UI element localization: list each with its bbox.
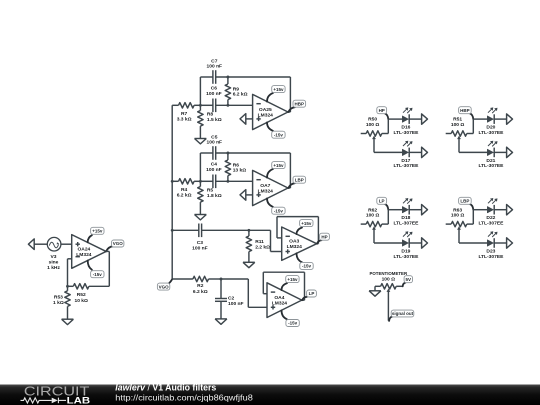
wire (OA3 feedback loop) [277,217,318,244]
svg-text:V3: V3 [51,254,57,260]
footer bar [0,385,540,405]
svg-text:POTENTIOMETER: POTENTIOMETER [370,271,408,277]
ground (right-pointing) [422,114,428,124]
node B [226,104,229,107]
op-amp OA24 LM324 [72,235,106,269]
resistor R4 6.2 k&#937; [172,179,200,199]
svg-text:LTL-307EE: LTL-307EE [478,221,504,227]
wire [473,118,487,120]
svg-text:HBP: HBP [460,108,470,113]
wire (to OA4 non-inverting input) [221,279,267,307]
svg-text:-15v: -15v [288,321,298,326]
svg-text:OA25: OA25 [259,107,272,113]
ground (below R11) [243,262,255,267]
LED D16 LTL-307EE [393,107,419,135]
wiper (R62) [372,226,376,243]
wiper (R51) [457,136,461,153]
svg-text:lawlerv / V1 Audio filters: lawlerv / V1 Audio filters [115,383,216,393]
svg-text:LP: LP [379,199,385,204]
node A [199,180,202,183]
flag +15v (OA3) [297,220,314,235]
flag LBP (indicator input) [459,197,474,209]
node (top rail / R6) [226,152,229,155]
potentiometer R51 100 &#937; [446,117,474,137]
svg-text:R2: R2 [197,283,204,289]
svg-text:100 Ω: 100 Ω [451,213,465,219]
flag -15v (OA25) [267,122,285,138]
LED D21 LTL-307EE [478,141,504,170]
svg-text:-15v: -15v [274,208,284,213]
svg-text:HP: HP [321,234,327,239]
svg-text:-15v: -15v [274,132,284,137]
svg-text:R11: R11 [255,239,264,245]
flag -15v (OA3) [297,253,314,269]
svg-text:2.2 kΩ: 2.2 kΩ [255,245,270,251]
svg-text:D18: D18 [401,215,410,221]
svg-text:OA3: OA3 [289,239,299,245]
capacitor C4 100 nF [206,162,222,189]
svg-text:R5: R5 [207,187,214,193]
svg-text:1.8 kΩ: 1.8 kΩ [207,193,222,199]
svg-text:OA4: OA4 [274,295,284,301]
LED D19 LTL-307EE [393,231,419,259]
CircuitLab logo [21,385,91,405]
LED D17 LTL-307EE [393,141,419,170]
svg-text:R53: R53 [54,295,63,301]
svg-text:10 kΩ: 10 kΩ [74,298,88,304]
flag +15v (OA24) [88,227,104,242]
flag VGO (OA24 output) [106,240,124,251]
svg-text:LM324: LM324 [258,188,274,194]
svg-text:C6: C6 [211,86,218,92]
ground (right-pointing) [507,205,513,215]
op-amp OA3 LM324 [282,227,317,260]
flag 5V [403,276,413,287]
ground (at non-inverting input) [240,114,253,125]
svg-text:VGO: VGO [113,241,124,246]
resistor R7 3.3 k&#937; [172,103,200,123]
wire (OA24 output to feedback) [89,251,109,286]
svg-text:100 nF: 100 nF [228,301,244,307]
svg-text:100 Ω: 100 Ω [382,276,396,282]
potentiometer R62 100 &#937; [361,207,389,227]
svg-text:sine: sine [49,259,59,265]
footer title text [115,383,253,403]
svg-text:R8: R8 [207,111,214,117]
svg-text:1.5 kΩ: 1.5 kΩ [207,117,222,123]
svg-text:R4: R4 [181,187,188,193]
svg-text:D23: D23 [486,248,495,254]
node (bus / stage-2) [171,180,174,183]
svg-text:C3: C3 [197,240,204,246]
svg-text:R7: R7 [181,111,188,117]
svg-text:D20: D20 [486,125,495,131]
svg-text:6.2 kΩ: 6.2 kΩ [233,92,248,98]
svg-text:100 nF: 100 nF [192,245,208,251]
wire [409,242,421,244]
wire [494,209,506,211]
svg-text:LM324: LM324 [287,244,303,250]
wire [61,243,72,245]
wire (feedback) [288,77,290,112]
svg-text:D17: D17 [401,158,410,164]
potentiometer POTENTIOMETER 100 &#937; [370,271,408,289]
wire (node A up to top rail) [199,77,201,105]
wire (mid rail) [200,180,252,182]
wire [473,209,487,211]
svg-text:100 nF: 100 nF [206,91,222,97]
node (C3 / R11) [247,229,250,232]
ground (right-pointing) [422,147,428,157]
svg-text:LTL-307EE: LTL-307EE [478,163,504,169]
svg-text:100 Ω: 100 Ω [366,122,380,128]
wire [68,285,74,287]
svg-text:LM324: LM324 [76,252,92,258]
wire [172,229,199,231]
LED D18 LTL-307EE [393,198,419,227]
svg-text:LBP: LBP [460,199,469,204]
svg-text:D19: D19 [401,248,410,254]
resistor R5 1.8 k&#937; [198,181,222,214]
svg-text:signal out: signal out [392,311,414,316]
flag HP (OA3 output) [317,233,329,244]
node A [199,104,202,107]
resistor R8 1.5 k&#937; [198,105,222,138]
wire [494,242,506,244]
svg-text:5V: 5V [406,277,412,282]
svg-text:+15v: +15v [273,87,284,92]
flag -15v (OA4) [282,310,300,326]
ground (below C2) [215,319,227,324]
flag +15v (OA25) [267,86,285,102]
node (top rail / R9) [226,76,229,79]
svg-text:R9: R9 [233,86,240,92]
flag HBP (OA25 output) [288,100,305,112]
wire (top rail) [200,76,290,78]
svg-text:R63: R63 [453,207,462,213]
wire [374,151,402,153]
wire [202,229,249,231]
capacitor C5 100 nF [207,135,223,160]
node (bus / stage-3) [171,229,174,232]
resistor R9 6.2 k&#937; [225,77,247,105]
LED D23 LTL-307EE [478,231,504,259]
wiper (potentiometer) [387,289,391,321]
svg-text:100 Ω: 100 Ω [451,122,465,128]
capacitor C2 100 nF [215,279,244,319]
wire (inverting input to junction) [68,259,72,287]
wire [494,151,506,153]
svg-text:R50: R50 [368,117,377,123]
svg-text:R52: R52 [77,292,86,298]
svg-text:D21: D21 [486,158,495,164]
flag HP (indicator input) [377,107,389,119]
voltage source V3 sine 1 kHz [47,237,61,271]
svg-text:HP: HP [379,108,385,113]
svg-text:+15v: +15v [301,221,312,226]
resistor R53 1 k&#937; [53,286,70,319]
capacitor C6 100 nF [206,86,222,113]
svg-text:OA24: OA24 [78,246,91,252]
wire [459,151,487,153]
flag HBP (indicator input) [459,107,474,119]
capacitor C7 100 nF [207,59,223,84]
svg-text:R62: R62 [368,207,377,213]
svg-text:LP: LP [309,291,315,296]
wiper (R63) [457,226,461,243]
wire [409,209,421,211]
wire [34,243,47,245]
flag LBP (OA7 output) [288,176,305,188]
wire [374,242,402,244]
svg-text:LBP: LBP [295,177,304,182]
svg-text:OA7: OA7 [260,183,270,189]
op-amp OA4 LM324 [267,283,302,318]
wire [459,242,487,244]
ground (at non-inverting input) [240,190,253,201]
svg-text:+15v: +15v [92,229,103,234]
svg-text:HBP: HBP [295,101,305,106]
svg-text:LM324: LM324 [272,301,288,307]
flag +15v (OA7) [267,162,285,178]
flag VGO (bus input) [157,279,172,290]
svg-text:LTL-307EE: LTL-307EE [393,163,419,169]
svg-text:1 kHz: 1 kHz [47,265,60,271]
LED D20 LTL-307EE [478,107,504,135]
node (R2 / C2) [220,278,223,281]
svg-text:LTL-307EE: LTL-307EE [393,221,419,227]
resistor R2 6.2 k&#937; [172,276,221,295]
wire (top rail) [200,152,290,154]
svg-text:LTL-307EE: LTL-307EE [478,254,504,260]
svg-text:LTL-307EE: LTL-307EE [393,254,419,260]
flag -15v (OA24) [88,261,104,278]
ground (potentiometer left) [369,286,381,296]
resistor R6 13 k&#937; [225,153,246,181]
potentiometer R50 100 &#937; [361,117,389,137]
svg-text:13 kΩ: 13 kΩ [233,168,247,174]
svg-text:+15v: +15v [273,163,284,168]
flag signal out [389,310,414,321]
wire (node A up to top rail) [199,153,201,181]
ground (below R53) [62,319,74,324]
flag LP (indicator input) [377,197,389,209]
wiper (R50) [372,136,376,153]
wire [494,118,506,120]
svg-text:6.2 kΩ: 6.2 kΩ [193,289,208,295]
flag LP (OA4 output) [302,290,316,300]
ground (right-pointing) [422,205,428,215]
wire (OA4 feedback loop) [263,272,304,300]
node B [226,180,229,183]
svg-text:D16: D16 [401,125,410,131]
svg-text:C2: C2 [228,296,235,302]
svg-text:-15v: -15v [93,272,103,277]
svg-text:R51: R51 [453,117,462,123]
svg-text:+15v: +15v [287,277,298,282]
capacitor C3 100 nF [192,224,208,252]
wire (input bus vertical) [171,105,173,279]
flag +15v (OA4) [282,276,300,291]
potentiometer R63 100 &#937; [446,207,474,227]
resistor R52 10 k&#937; [73,284,89,304]
wire [409,118,421,120]
wire [388,118,402,120]
ground (input, left-pointing) [28,239,34,250]
wire (to OA3 non-inverting input) [249,230,282,251]
ground (below R5) [195,215,207,220]
svg-text:C4: C4 [211,162,218,168]
svg-text:100 Ω: 100 Ω [366,213,380,219]
svg-text:D22: D22 [486,215,495,221]
svg-text:LAB: LAB [67,395,91,405]
ground (right-pointing) [507,114,513,124]
svg-text:100 nF: 100 nF [207,139,223,145]
ground (right-pointing) [422,238,428,248]
ground (below R8) [195,139,207,144]
svg-text:1 kΩ: 1 kΩ [53,300,64,306]
flag -15v (OA7) [267,198,285,214]
wire [409,151,421,153]
ground (right-pointing) [507,238,513,248]
op-amp OA7 LM324 [253,170,288,205]
wire (mid rail) [200,104,252,106]
wire (feedback) [288,153,290,188]
node (feedback junction) [66,285,69,288]
svg-text:LTL-307EE: LTL-307EE [478,130,504,136]
svg-text:http://circuitlab.com/cjqb86qw: http://circuitlab.com/cjqb86qwfjfu8 [115,392,253,402]
wire [388,209,402,211]
svg-text:100 nF: 100 nF [207,63,223,69]
svg-text:LM324: LM324 [258,112,274,118]
ground (right-pointing) [507,147,513,157]
svg-text:R6: R6 [233,162,240,168]
LED D22 LTL-307EE [478,198,504,227]
svg-text:LTL-307EE: LTL-307EE [393,130,419,136]
resistor R11 2.2 k&#937; [246,230,270,262]
op-amp OA25 LM324 [253,94,288,129]
svg-text:3.3 kΩ: 3.3 kΩ [177,116,192,122]
svg-text:6.2 kΩ: 6.2 kΩ [177,192,192,198]
svg-text:-15v: -15v [302,264,312,269]
svg-text:100 nF: 100 nF [206,167,222,173]
svg-text:VGO: VGO [159,284,170,289]
